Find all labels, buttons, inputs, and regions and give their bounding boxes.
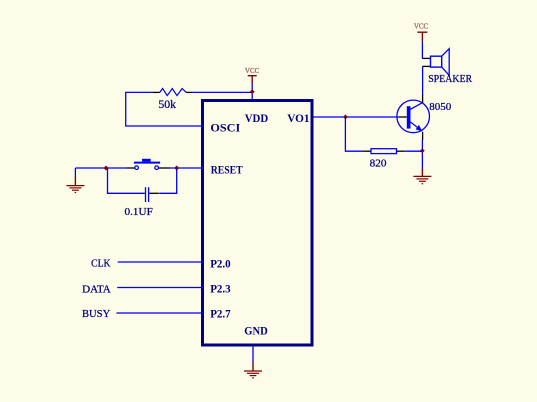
transistor Q1 emitter arrow: [416, 125, 423, 131]
svg-text:SPEAKER: SPEAKER: [428, 73, 472, 85]
svg-text:VDD: VDD: [245, 111, 269, 125]
wire switch to RESET pin: [170, 167, 203, 169]
resistor R1 left lead: [152, 91, 160, 93]
svg-text:50k: 50k: [158, 97, 176, 111]
junction emitter/820: [420, 148, 425, 153]
IC U1 body: [203, 101, 313, 346]
wire OSCI feedback loop: [126, 92, 203, 126]
junction VO1/820: [343, 115, 348, 120]
svg-text:VCC: VCC: [245, 67, 260, 75]
wire capacitor branch right: [159, 168, 177, 193]
svg-text:VO1: VO1: [287, 111, 309, 125]
svg-text:DATA: DATA: [82, 283, 111, 295]
switch S1 right contact: [155, 166, 159, 170]
transistor Q1 emitter line: [411, 122, 423, 131]
wire resistor to VCC node: [192, 91, 252, 93]
resistor R2 820 box: [371, 149, 397, 154]
svg-text:VCC: VCC: [414, 23, 429, 31]
svg-text:OSCI: OSCI: [210, 121, 240, 135]
wire DATA: [117, 287, 203, 289]
svg-text:8050: 8050: [429, 101, 451, 113]
transistor Q1 collector pin: [422, 95, 424, 103]
switch S1 right pin: [158, 167, 170, 169]
junction VDD/50k: [250, 89, 255, 94]
ground (emitter): [421, 168, 423, 176]
switch S1 actuator: [142, 159, 151, 162]
wire VCC to speaker: [421, 42, 423, 59]
transistor Q1 collector line: [411, 103, 423, 110]
junction RESET left: [104, 166, 109, 171]
GND pin stub: [252, 347, 254, 362]
switch S1 bar: [134, 162, 160, 164]
svg-text:CLK: CLK: [91, 258, 110, 270]
wire capacitor branch left: [108, 168, 143, 193]
svg-text:P2.0: P2.0: [210, 256, 231, 270]
svg-text:P2.3: P2.3: [210, 281, 231, 295]
capacitor C1 right plate: [148, 187, 150, 202]
speaker LS1 horn: [442, 49, 450, 76]
switch S1 left contact: [135, 166, 139, 170]
capacitor C1 left plate: [145, 187, 147, 202]
ground (GND pin): [252, 362, 254, 372]
wire collector to speaker: [422, 66, 424, 94]
speaker LS1 top pin: [422, 57, 430, 59]
speaker LS1 body: [431, 56, 442, 67]
junction RESET right: [174, 166, 179, 171]
switch S1 left pin: [127, 167, 135, 169]
svg-text:P2.7: P2.7: [210, 307, 231, 321]
transistor Q1 base bar: [407, 106, 411, 128]
svg-text:BUSY: BUSY: [82, 308, 110, 320]
svg-text:GND: GND: [244, 323, 268, 337]
wire VCC to VDD pin: [251, 84, 253, 100]
resistor R1 50k zigzag: [160, 89, 187, 96]
capacitor C1 left lead: [143, 192, 145, 194]
svg-text:0.1UF: 0.1UF: [125, 207, 154, 218]
transistor Q1 emitter pin: [422, 132, 424, 140]
transistor Q1 circle: [397, 100, 430, 133]
wire 820 branch: [345, 117, 362, 151]
wire VO1 to base: [314, 116, 399, 118]
svg-text:820: 820: [370, 159, 387, 170]
speaker LS1 bottom pin: [422, 65, 430, 67]
svg-text:RESET: RESET: [211, 163, 243, 177]
resistor R1 right lead: [186, 91, 192, 93]
wire CLK: [118, 261, 203, 263]
ground (reset): [74, 168, 76, 176]
resistor R2 right lead: [397, 150, 405, 152]
transistor Q1 base pin: [399, 116, 407, 118]
wire emitter down: [421, 140, 423, 168]
wire RESET row: [75, 167, 126, 169]
resistor R2 left lead: [362, 150, 371, 152]
wire BUSY: [116, 312, 203, 314]
wire 820 to emitter node: [405, 150, 423, 152]
capacitor C1 right lead: [149, 192, 159, 194]
